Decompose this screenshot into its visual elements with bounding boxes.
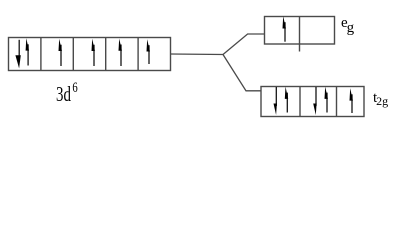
label 3d6	[56, 81, 78, 105]
orbital box 3d (5 cells)	[9, 38, 171, 71]
electron arrow up, t2g cell 1	[285, 87, 288, 113]
electron arrow down, t2g cell 2	[313, 87, 316, 115]
electron arrow up, t2g cell 3	[350, 88, 353, 113]
orbital box t2g (3 cells)	[261, 87, 364, 117]
electron arrow up, 3d cell 4	[119, 39, 122, 67]
label t2g	[373, 91, 388, 107]
electron arrow up, 3d cell 5	[147, 39, 150, 64]
electron arrow up, 3d cell 3	[92, 39, 95, 66]
electron arrow up, t2g cell 2	[325, 87, 328, 113]
electron arrow up, 3d cell 1	[26, 38, 29, 65]
electron arrow up, eg cell 1	[283, 16, 286, 42]
orbital box eg (2 cells)	[265, 17, 335, 52]
wire fork lower branch to t2g box	[223, 55, 261, 91]
wire from 3d box to fork	[171, 53, 224, 56]
electron arrow down, t2g cell 1	[274, 87, 277, 115]
label eg	[341, 16, 354, 36]
wire fork upper branch to eg box	[223, 34, 265, 55]
electron arrow up, 3d cell 2	[59, 39, 62, 66]
electron arrow down, 3d cell 1	[15, 40, 20, 69]
